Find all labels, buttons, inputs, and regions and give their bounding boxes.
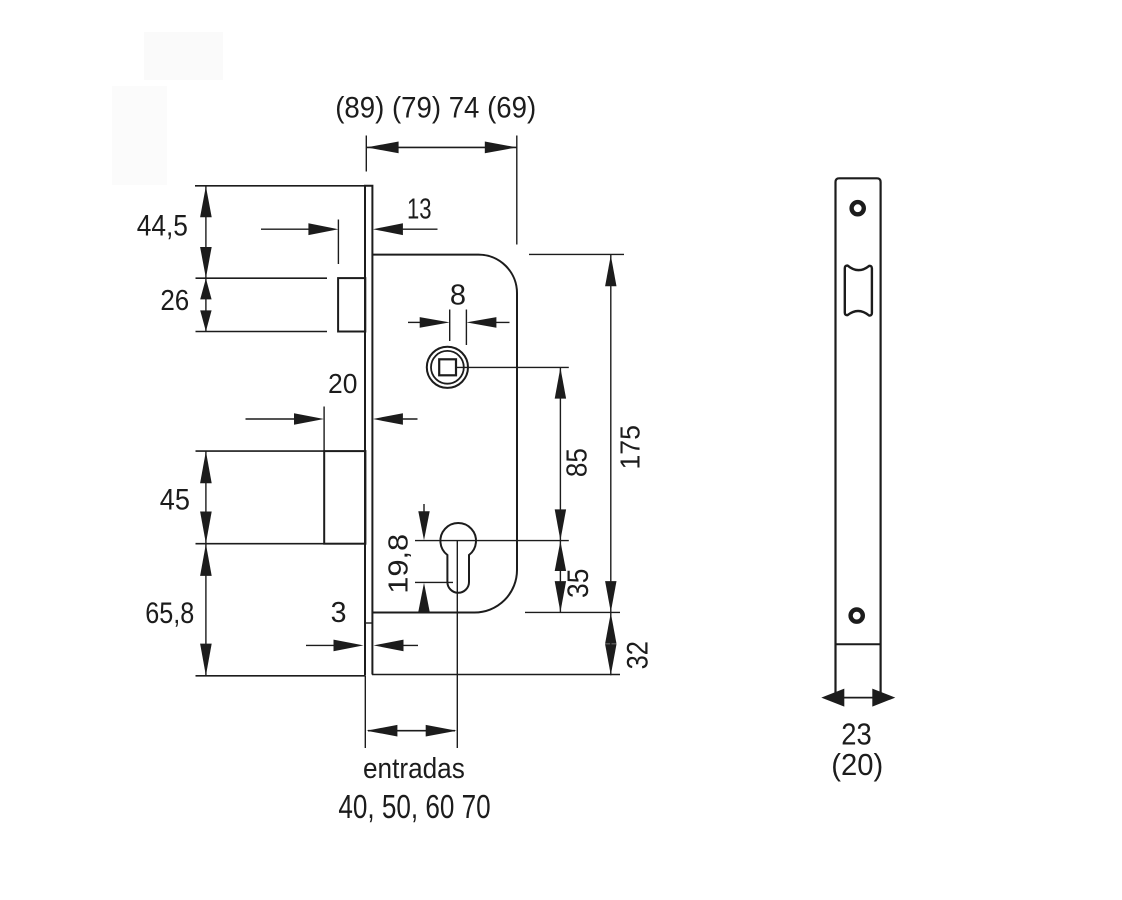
svg-text:44,5: 44,5 bbox=[137, 210, 188, 243]
euro cylinder keyhole bbox=[440, 523, 476, 593]
follower inner circle bbox=[431, 351, 464, 384]
svg-text:(89) (79) 74 (69): (89) (79) 74 (69) bbox=[335, 92, 536, 125]
lock body outline bbox=[373, 255, 517, 613]
svg-text:8: 8 bbox=[450, 279, 466, 311]
svg-text:45: 45 bbox=[160, 483, 190, 516]
ext line top of faceplate bbox=[195, 185, 365, 187]
boundary line 26 bottom bbox=[196, 331, 328, 333]
23 width dimension bbox=[834, 697, 882, 699]
top screw hole bbox=[852, 202, 864, 214]
follower outer circle bbox=[427, 347, 468, 388]
latch cutout bbox=[845, 266, 872, 316]
svg-text:175: 175 bbox=[615, 425, 646, 470]
cylinder centerline horizontal bbox=[415, 540, 569, 542]
svg-text:3: 3 bbox=[331, 597, 347, 629]
ext line latch face bbox=[337, 220, 339, 265]
ext line deadbolt face bbox=[323, 407, 325, 453]
faceplate side view bbox=[836, 178, 881, 697]
svg-text:23: 23 bbox=[841, 718, 871, 752]
svg-text:20: 20 bbox=[328, 368, 357, 399]
45 bottom boundary bbox=[196, 543, 325, 545]
deadbolt box bbox=[324, 451, 365, 544]
cylinder centerline vertical bbox=[456, 541, 458, 748]
follower square spindle hole bbox=[439, 359, 456, 375]
svg-text:19,8: 19,8 bbox=[382, 534, 413, 594]
svg-text:40, 50, 60 70: 40, 50, 60 70 bbox=[338, 788, 490, 825]
svg-text:85: 85 bbox=[562, 448, 594, 477]
dim line 74 bbox=[367, 146, 517, 148]
svg-text:65,8: 65,8 bbox=[145, 597, 194, 630]
latch bolt box bbox=[338, 278, 365, 331]
top ext line right bbox=[529, 253, 624, 255]
svg-text:entradas: entradas bbox=[363, 753, 465, 785]
85 / 35 dimension line bbox=[559, 367, 561, 612]
follower centerline bbox=[456, 366, 569, 368]
svg-text:32: 32 bbox=[622, 641, 655, 669]
watermark ghost A bbox=[144, 32, 223, 80]
bottom ext line right of body bbox=[525, 611, 620, 613]
45 top boundary bbox=[196, 450, 325, 452]
entradas dimension bbox=[364, 676, 366, 748]
bottom cap line bbox=[836, 643, 881, 645]
svg-text:(20): (20) bbox=[831, 749, 883, 782]
boundary line 44,5/26 bbox=[196, 277, 328, 279]
175 / 32 dimension line bbox=[610, 255, 612, 675]
bottom boundary left bbox=[196, 675, 366, 677]
ext line right of 74 bbox=[516, 136, 518, 245]
svg-text:13: 13 bbox=[407, 194, 432, 226]
faceplate front (main view) bbox=[365, 186, 372, 676]
ext line left of 74 bbox=[365, 136, 367, 172]
bottom screw hole bbox=[851, 610, 863, 622]
svg-text:35: 35 bbox=[562, 569, 595, 598]
svg-text:26: 26 bbox=[160, 285, 189, 317]
watermark ghost B bbox=[112, 86, 167, 185]
lower bottom ext line right bbox=[372, 674, 620, 676]
